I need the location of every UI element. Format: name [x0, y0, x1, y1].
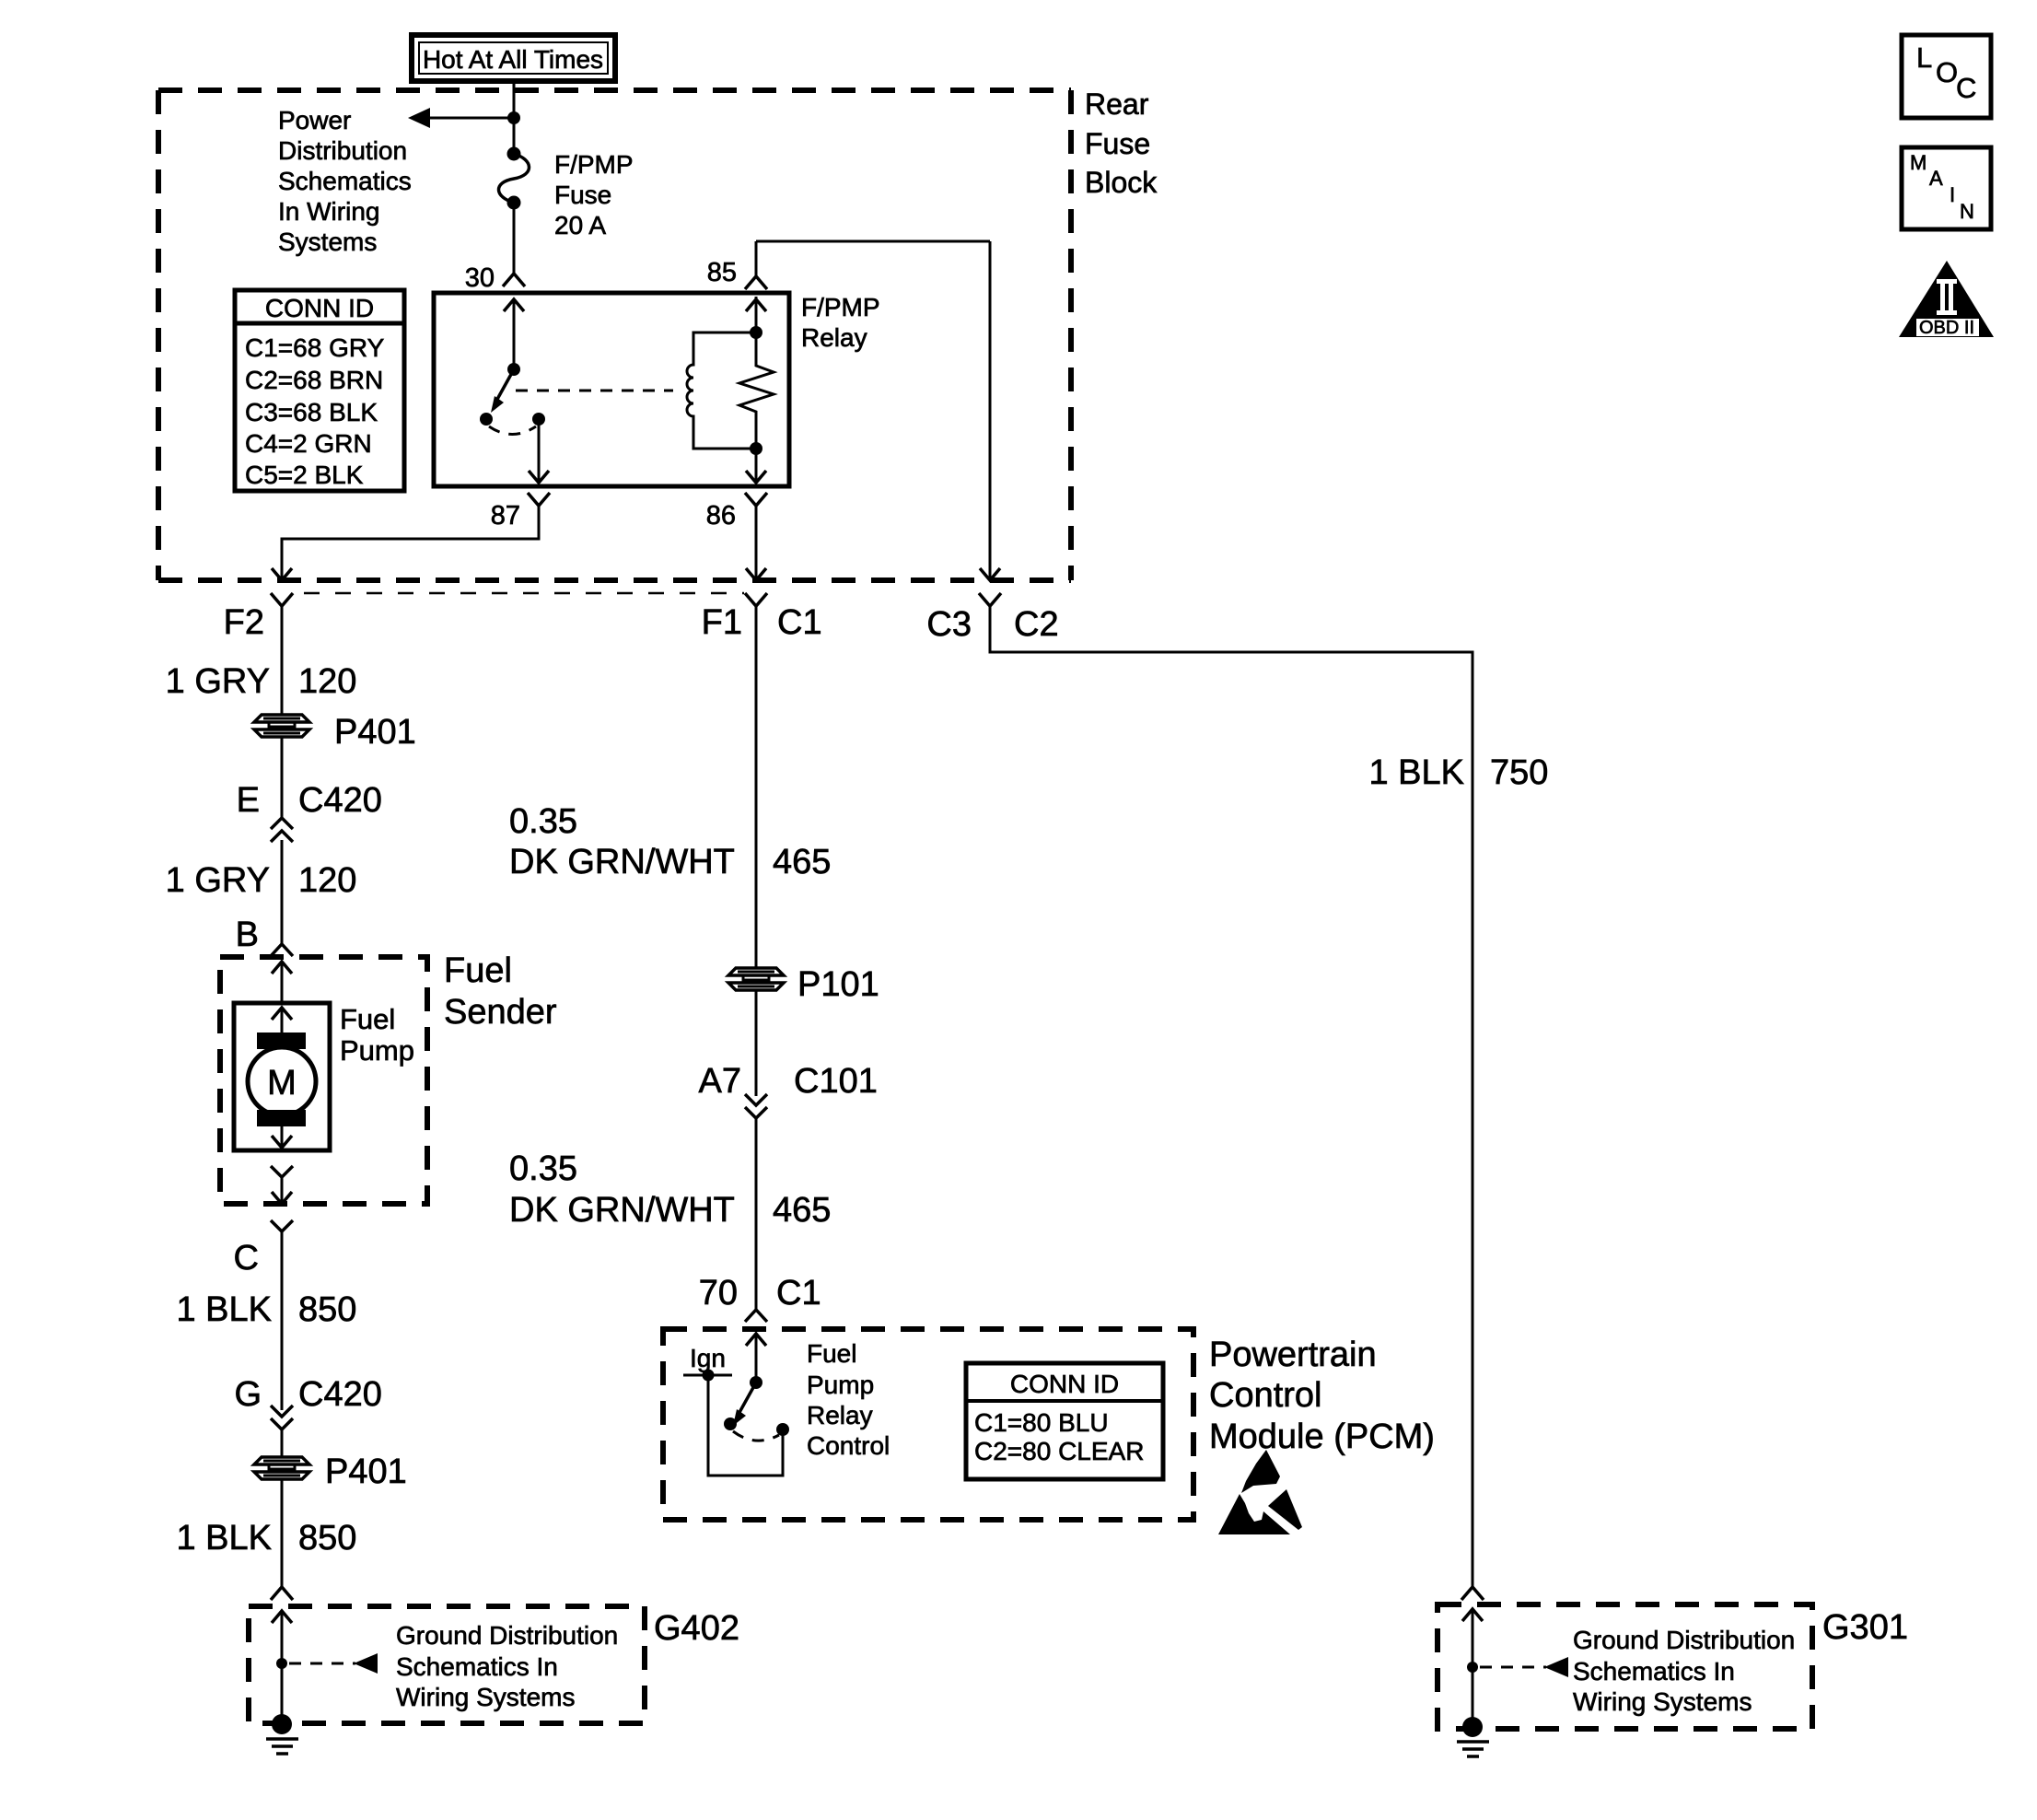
svg-text:F/PMP: F/PMP — [801, 293, 880, 321]
svg-text:C2=68 BRN: C2=68 BRN — [245, 366, 383, 394]
svg-text:C1=68 GRY: C1=68 GRY — [245, 333, 385, 362]
svg-text:C101: C101 — [794, 1062, 878, 1101]
svg-text:Relay: Relay — [801, 323, 867, 352]
svg-text:Rear: Rear — [1085, 87, 1149, 121]
svg-text:F/PMP: F/PMP — [554, 150, 634, 179]
svg-text:C5=2 BLK: C5=2 BLK — [245, 461, 364, 489]
svg-text:B: B — [236, 916, 259, 954]
svg-text:A: A — [1929, 167, 1943, 190]
svg-text:Control: Control — [807, 1431, 890, 1460]
svg-text:Ign: Ign — [690, 1344, 726, 1372]
svg-text:C2=80 CLEAR: C2=80 CLEAR — [974, 1437, 1144, 1465]
svg-text:70: 70 — [699, 1274, 738, 1312]
svg-text:CONN ID: CONN ID — [1010, 1370, 1119, 1398]
svg-text:Schematics: Schematics — [278, 167, 412, 195]
svg-text:Pump: Pump — [807, 1371, 874, 1399]
svg-text:Fuel: Fuel — [444, 951, 512, 990]
svg-text:465: 465 — [773, 843, 831, 881]
svg-text:Block: Block — [1085, 166, 1158, 199]
svg-text:20 A: 20 A — [554, 211, 606, 239]
svg-text:Fuel: Fuel — [340, 1003, 395, 1035]
svg-text:A7: A7 — [699, 1062, 741, 1101]
svg-text:Module (PCM): Module (PCM) — [1209, 1417, 1435, 1456]
svg-text:Distribution: Distribution — [278, 136, 407, 165]
svg-text:C420: C420 — [298, 1375, 382, 1414]
svg-text:P101: P101 — [797, 965, 879, 1004]
svg-text:0.35: 0.35 — [509, 1149, 577, 1188]
svg-text:E: E — [237, 781, 260, 820]
svg-text:I: I — [1950, 183, 1955, 206]
svg-text:G: G — [234, 1375, 262, 1414]
svg-text:G301: G301 — [1822, 1608, 1908, 1647]
svg-text:C1=80 BLU: C1=80 BLU — [974, 1408, 1109, 1437]
svg-text:850: 850 — [298, 1290, 356, 1329]
svg-text:O: O — [1936, 56, 1958, 88]
svg-text:85: 85 — [707, 258, 737, 287]
svg-text:Pump: Pump — [340, 1034, 414, 1067]
svg-text:C3: C3 — [926, 605, 972, 644]
svg-text:Wiring Systems: Wiring Systems — [1573, 1687, 1752, 1716]
svg-text:Fuse: Fuse — [1085, 127, 1150, 160]
svg-text:DK GRN/WHT: DK GRN/WHT — [509, 843, 735, 881]
svg-text:C4=2 GRN: C4=2 GRN — [245, 429, 372, 458]
svg-text:1 BLK: 1 BLK — [176, 1290, 272, 1329]
svg-text:P401: P401 — [334, 713, 416, 752]
svg-text:1 BLK: 1 BLK — [1368, 753, 1464, 792]
svg-text:1 GRY: 1 GRY — [166, 861, 270, 900]
svg-text:Fuse: Fuse — [554, 181, 611, 209]
svg-text:Power: Power — [278, 106, 351, 134]
svg-text:Wiring Systems: Wiring Systems — [396, 1683, 575, 1711]
svg-text:Ground Distribution: Ground Distribution — [396, 1621, 618, 1650]
svg-text:C3=68 BLK: C3=68 BLK — [245, 398, 378, 426]
svg-text:Ground Distribution: Ground Distribution — [1573, 1626, 1795, 1654]
svg-text:120: 120 — [298, 662, 356, 701]
svg-text:C1: C1 — [776, 1274, 821, 1312]
svg-text:C420: C420 — [298, 781, 382, 820]
svg-text:30: 30 — [465, 263, 495, 293]
svg-text:Schematics In: Schematics In — [1573, 1657, 1735, 1686]
svg-text:P401: P401 — [325, 1452, 407, 1491]
svg-text:Schematics In: Schematics In — [396, 1652, 558, 1681]
svg-text:C: C — [234, 1239, 259, 1277]
svg-text:OBD II: OBD II — [1919, 318, 1974, 338]
svg-text:M: M — [1910, 151, 1926, 174]
svg-text:N: N — [1960, 200, 1974, 223]
svg-text:87: 87 — [491, 501, 520, 531]
svg-text:G402: G402 — [654, 1609, 739, 1648]
svg-text:Control: Control — [1209, 1376, 1322, 1415]
svg-text:465: 465 — [773, 1191, 831, 1230]
svg-text:750: 750 — [1490, 753, 1548, 792]
svg-text:Relay: Relay — [807, 1401, 873, 1429]
svg-text:1 GRY: 1 GRY — [166, 662, 270, 701]
svg-text:F1: F1 — [702, 603, 742, 642]
svg-text:L: L — [1916, 41, 1932, 74]
svg-text:86: 86 — [706, 501, 736, 531]
svg-text:C: C — [1956, 72, 1976, 104]
svg-text:Fuel: Fuel — [807, 1339, 856, 1368]
svg-text:Powertrain: Powertrain — [1209, 1336, 1377, 1374]
svg-text:C2: C2 — [1014, 605, 1059, 644]
svg-text:1 BLK: 1 BLK — [176, 1519, 272, 1557]
svg-text:DK GRN/WHT: DK GRN/WHT — [509, 1191, 735, 1230]
svg-text:Systems: Systems — [278, 227, 377, 256]
svg-text:In Wiring: In Wiring — [278, 197, 379, 226]
svg-text:0.35: 0.35 — [509, 802, 577, 841]
svg-text:Sender: Sender — [444, 993, 557, 1032]
svg-text:M: M — [267, 1064, 297, 1102]
svg-text:Hot At All Times: Hot At All Times — [423, 45, 603, 74]
svg-text:CONN ID: CONN ID — [265, 294, 374, 322]
svg-text:850: 850 — [298, 1519, 356, 1557]
svg-text:120: 120 — [298, 861, 356, 900]
svg-text:C1: C1 — [777, 603, 822, 642]
svg-text:F2: F2 — [224, 603, 264, 642]
